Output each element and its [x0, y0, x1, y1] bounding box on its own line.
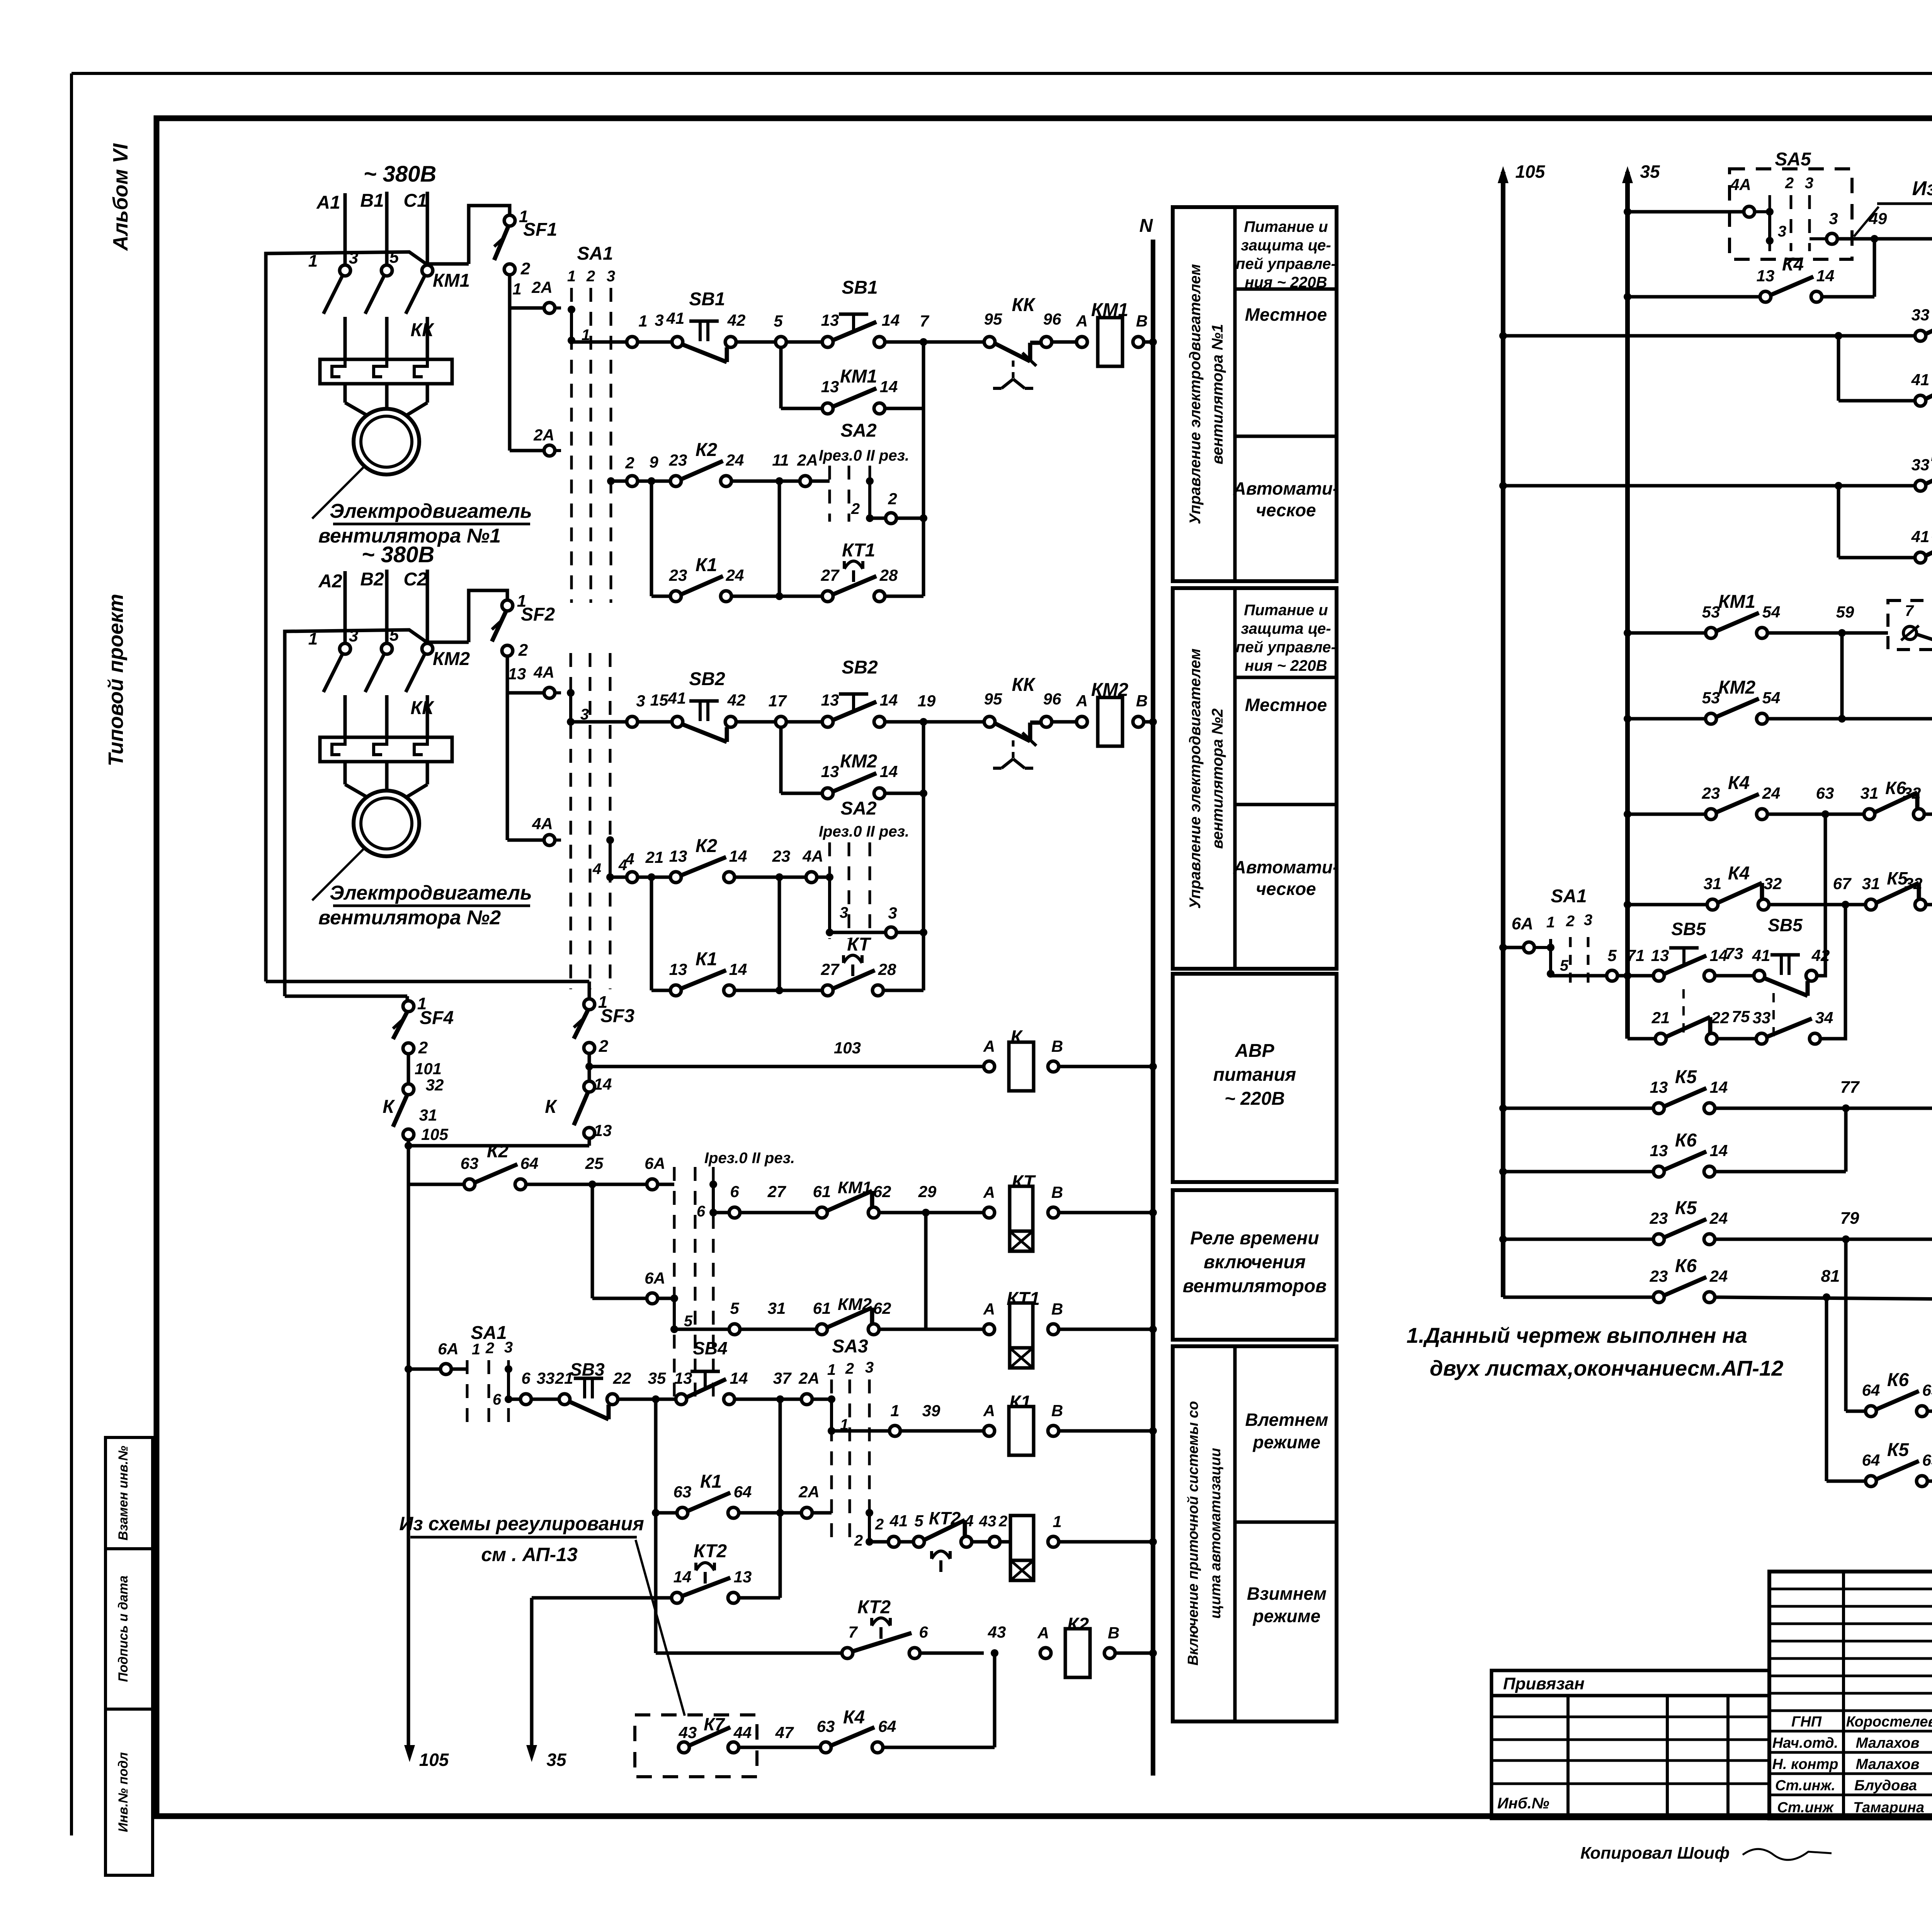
svg-text:1: 1: [472, 1341, 480, 1358]
svg-text:КМ2: КМ2: [1718, 677, 1755, 698]
svg-text:64: 64: [520, 1154, 539, 1172]
svg-text:1: 1: [827, 1361, 836, 1378]
terminal B fan2: [1133, 716, 1144, 727]
svg-text:В: В: [1108, 1624, 1119, 1642]
rung K6 coil wire: [1624, 901, 1631, 908]
svg-text:23: 23: [1650, 1267, 1668, 1285]
svg-text:61: 61: [813, 1182, 831, 1201]
terminal 3 right fan2: [886, 927, 896, 938]
svg-text:5: 5: [389, 248, 399, 267]
rung K1 KT1 fan1 wire: [650, 481, 653, 596]
table Управление вентилятором №2: [1173, 588, 1337, 969]
svg-text:5: 5: [774, 312, 783, 330]
rung K5 coil wire: [1624, 810, 1631, 818]
svg-text:Ст.инж: Ст.инж: [1777, 1800, 1834, 1816]
svg-text:Н. контр: Н. контр: [1772, 1756, 1838, 1772]
svg-text:14: 14: [1710, 1141, 1728, 1160]
terminal 2 right: [886, 513, 896, 524]
wire bus1 to SF3: [266, 980, 589, 983]
svg-text:2: 2: [1566, 913, 1575, 930]
svg-text:К6: К6: [1887, 1370, 1909, 1390]
svg-text:3: 3: [1829, 209, 1838, 228]
wire 14-19: [885, 720, 990, 724]
wire 14-7: [885, 340, 990, 344]
svg-text:Автомати-: Автомати-: [1233, 857, 1339, 877]
table Включение приточной системы: [1173, 1346, 1337, 1721]
svg-text:44: 44: [733, 1723, 752, 1742]
svg-text:Питание и: Питание и: [1244, 218, 1328, 235]
svg-text:1: 1: [308, 629, 318, 648]
svg-text:2: 2: [518, 641, 528, 660]
terminal B: [1133, 337, 1144, 347]
rung SB5 wire: [1551, 974, 1607, 978]
svg-text:3: 3: [1778, 223, 1786, 240]
svg-text:1: 1: [638, 312, 647, 330]
svg-text:13: 13: [674, 1369, 692, 1387]
terminal 3 SA5: [1827, 233, 1837, 244]
wire 96-A: [1052, 340, 1077, 344]
svg-text:3: 3: [888, 904, 897, 922]
SA1 fan2 position segment line1: [569, 693, 572, 722]
svg-text:13: 13: [821, 762, 839, 781]
svg-text:22: 22: [1711, 1009, 1730, 1027]
rung HL1 wire: [1499, 332, 1507, 340]
svg-text:2: 2: [418, 1038, 428, 1057]
wire 34 up to 67: [1820, 905, 1845, 1039]
svg-text:53: 53: [1702, 689, 1720, 707]
svg-text:В: В: [1051, 1183, 1063, 1201]
svg-text:пей управле-: пей управле-: [1236, 255, 1336, 272]
arrow 35 bottom: [526, 1745, 537, 1762]
svg-text:42: 42: [727, 691, 746, 709]
svg-text:щита автоматизации: щита автоматизации: [1207, 1448, 1224, 1619]
svg-text:3: 3: [349, 248, 358, 267]
SA1 right segment: [1549, 939, 1552, 976]
svg-text:41: 41: [1752, 946, 1770, 964]
svg-text:6: 6: [697, 1203, 706, 1220]
wire phase B2: [385, 570, 389, 642]
svg-text:В: В: [1051, 1300, 1063, 1318]
svg-text:ческое: ческое: [1256, 500, 1316, 520]
svg-text:79: 79: [1840, 1209, 1859, 1228]
wire 14-73-41: [1715, 974, 1754, 978]
svg-text:~ 380В: ~ 380В: [362, 542, 435, 567]
svg-text:Инб.№: Инб.№: [1497, 1795, 1549, 1812]
svg-text:А: А: [1037, 1624, 1049, 1642]
svg-text:пей управле-: пей управле-: [1236, 639, 1336, 656]
svg-text:А1: А1: [316, 192, 340, 213]
svg-text:К: К: [545, 1097, 558, 1117]
svg-text:6А: 6А: [438, 1340, 459, 1358]
svg-text:63: 63: [673, 1483, 692, 1501]
svg-text:105: 105: [1515, 162, 1546, 182]
svg-text:29: 29: [918, 1182, 937, 1201]
svg-text:Ст.инж.: Ст.инж.: [1775, 1778, 1835, 1794]
svg-text:95: 95: [984, 310, 1002, 328]
svg-text:К1: К1: [700, 1471, 722, 1492]
svg-text:Питание и: Питание и: [1244, 602, 1328, 619]
svg-text:Нач.отд.: Нач.отд.: [1772, 1735, 1838, 1751]
svg-text:96: 96: [1043, 310, 1061, 328]
svg-text:С1: С1: [403, 191, 427, 211]
svg-text:41: 41: [1911, 371, 1930, 389]
svg-text:КК: КК: [1012, 295, 1036, 315]
wire 59 vertical: [1840, 633, 1844, 719]
svg-text:28: 28: [878, 960, 896, 978]
wire 24-11-2А: [731, 480, 800, 483]
svg-text:С2: С2: [403, 569, 427, 590]
svg-text:3: 3: [840, 904, 848, 921]
svg-text:КМ1: КМ1: [433, 270, 470, 291]
svg-text:67: 67: [1833, 874, 1852, 893]
SA2 fan2 position segment: [828, 877, 831, 932]
svg-text:27: 27: [767, 1182, 786, 1201]
svg-text:14: 14: [730, 1369, 748, 1387]
terminal 4А SA5: [1744, 206, 1755, 217]
rung K4 contact 13-14 wire: [1624, 293, 1631, 301]
wire 14-37-2А: [735, 1398, 801, 1401]
wire 35 to SA5: [1624, 208, 1631, 216]
svg-text:К2: К2: [696, 440, 718, 460]
wire phase A1: [344, 193, 347, 266]
wire 37 vertical: [779, 1399, 782, 1598]
wire phase B1: [385, 192, 389, 264]
wire SF3 junction to K coil rung: [585, 1063, 593, 1070]
svg-text:23: 23: [1650, 1209, 1668, 1227]
svg-text:27: 27: [821, 960, 840, 978]
terminal B K2: [1104, 1648, 1115, 1658]
svg-text:62: 62: [873, 1299, 891, 1317]
svg-text:71: 71: [1627, 946, 1645, 964]
wire 42-17: [736, 720, 776, 724]
svg-text:двух листах,окончаниесм.АП-12: двух листах,окончаниесм.АП-12: [1430, 1356, 1783, 1380]
mechanical link dash SB5 stop: [1772, 993, 1775, 1043]
svg-text:64: 64: [1862, 1451, 1880, 1469]
svg-text:54: 54: [1762, 689, 1781, 707]
time relay coil KT2: [1010, 1516, 1034, 1560]
svg-text:2: 2: [1785, 175, 1794, 192]
wire 17-13: [786, 720, 822, 724]
svg-text:31: 31: [1861, 784, 1879, 802]
svg-text:ГНП: ГНП: [1791, 1714, 1822, 1730]
svg-text:2А: 2А: [797, 451, 818, 469]
SA3 segment 3: [868, 1513, 871, 1542]
svg-text:SB5: SB5: [1671, 919, 1706, 939]
left margin stamp box Взамен инв.№: [105, 1437, 153, 1549]
SA2 fan1 position segment: [868, 481, 871, 518]
svg-text:28: 28: [879, 566, 898, 584]
svg-text:103: 103: [834, 1039, 861, 1057]
svg-text:К4: К4: [843, 1707, 865, 1728]
box Привязан: [1492, 1670, 1769, 1696]
svg-text:КТ2: КТ2: [694, 1541, 727, 1561]
wire B-N fan2: [1144, 720, 1153, 724]
svg-text:31: 31: [768, 1299, 786, 1317]
svg-text:К2: К2: [487, 1141, 509, 1162]
svg-text:23: 23: [1702, 784, 1720, 802]
terminal 1 KT2: [1048, 1536, 1059, 1547]
svg-text:64: 64: [734, 1483, 752, 1501]
svg-text:63: 63: [1816, 784, 1834, 802]
terminal 6А right: [1524, 942, 1534, 953]
svg-text:6А: 6А: [645, 1269, 665, 1287]
svg-text:К5: К5: [1675, 1198, 1697, 1218]
svg-text:А: А: [983, 1183, 995, 1201]
left margin stamp box Подпись и дата: [105, 1549, 153, 1709]
svg-text:Инв.№ подл: Инв.№ подл: [116, 1752, 131, 1832]
svg-text:35: 35: [648, 1369, 666, 1387]
svg-text:19: 19: [918, 692, 936, 710]
rung HL3 wire: [1499, 482, 1507, 490]
svg-text:2А: 2А: [533, 426, 554, 444]
svg-text:SA2: SA2: [840, 420, 877, 441]
rung 63 K1 64 wire: [654, 1399, 658, 1653]
svg-text:64: 64: [878, 1717, 896, 1735]
svg-text:А: А: [983, 1300, 995, 1318]
svg-text:~ 380В: ~ 380В: [364, 162, 437, 187]
svg-text:35: 35: [1640, 162, 1660, 182]
outer sheet frame: [71, 72, 1932, 75]
svg-text:14: 14: [880, 691, 898, 709]
wire 42 up to 63: [1817, 814, 1825, 976]
svg-text:21: 21: [645, 848, 664, 866]
rung KT coil wire: [713, 1211, 729, 1214]
svg-text:14: 14: [1710, 1078, 1728, 1096]
SA2 lower segment II: [712, 1184, 715, 1213]
svg-text:33: 33: [1912, 456, 1930, 474]
svg-text:13: 13: [821, 691, 839, 709]
svg-text:SA1: SA1: [1551, 886, 1587, 907]
rung K1 coil wire: [832, 1429, 889, 1433]
rung HL2 wire: [1837, 336, 1840, 401]
wire from contact 5 to SF2: [427, 641, 469, 644]
rung KT1 coil wire: [674, 1328, 729, 1331]
svg-text:КК: КК: [410, 698, 435, 718]
svg-text:24: 24: [1709, 1209, 1728, 1227]
SA5 position segment: [1768, 212, 1771, 241]
svg-text:1: 1: [890, 1402, 899, 1420]
terminal 4А upper: [544, 687, 555, 698]
svg-text:Реле времени: Реле времени: [1190, 1228, 1319, 1249]
svg-text:Подпись и дата: Подпись и дата: [116, 1575, 131, 1682]
arrow 105 bottom: [404, 1745, 415, 1762]
svg-text:14: 14: [1816, 267, 1835, 285]
svg-text:7: 7: [920, 312, 929, 330]
motor M2 electric motor: [354, 791, 419, 856]
wire left bus fan2 top corner: [285, 630, 426, 996]
svg-text:Включение приточной системы со: Включение приточной системы со: [1185, 1401, 1201, 1666]
terminal B K coil: [1048, 1061, 1059, 1072]
svg-text:SA1: SA1: [471, 1323, 507, 1343]
wire 105 to 6А tap: [405, 1365, 412, 1373]
wire SF2 to 4А tap: [506, 656, 509, 840]
SA1 lower segment: [507, 1369, 510, 1399]
rail 35 right: [1625, 172, 1630, 1039]
svg-text:4А: 4А: [532, 815, 553, 833]
leader SA5: [1854, 207, 1879, 236]
svg-text:17: 17: [769, 692, 787, 710]
svg-text:защита це-: защита це-: [1241, 620, 1331, 637]
svg-text:А: А: [983, 1402, 995, 1420]
svg-text:4: 4: [964, 1512, 973, 1530]
svg-text:47: 47: [775, 1723, 794, 1742]
mechanical link dash SB5 start: [1682, 989, 1685, 1039]
rung K1 KT fan2 wire: [650, 877, 653, 990]
table cell Реле времени: [1173, 1190, 1337, 1340]
SA1 fan1 position segment: [570, 310, 573, 340]
svg-text:вентилятора №1: вентилятора №1: [1209, 324, 1226, 464]
terminal 2А upper: [544, 303, 555, 313]
rung K2 fan1 wire: [611, 480, 627, 483]
svg-text:32: 32: [1903, 784, 1921, 802]
svg-text:Управление электродвигателем: Управление электродвигателем: [1187, 648, 1204, 909]
svg-text:3: 3: [1805, 175, 1813, 192]
motor M1 electric motor: [354, 409, 419, 475]
svg-text:95: 95: [984, 690, 1002, 708]
svg-text:1: 1: [308, 252, 318, 270]
svg-text:105: 105: [421, 1125, 449, 1143]
svg-text:4А: 4А: [1730, 175, 1751, 194]
svg-text:7: 7: [848, 1623, 858, 1641]
rung K4 coil wire: [1624, 715, 1631, 723]
svg-text:Малахов: Малахов: [1856, 1756, 1920, 1772]
terminal B KT: [1048, 1207, 1059, 1218]
svg-text:96: 96: [1043, 690, 1061, 708]
rung K2 fan2 wire: [610, 876, 627, 879]
svg-text:SA1: SA1: [577, 243, 613, 264]
svg-text:2: 2: [520, 259, 531, 278]
svg-text:1: 1: [567, 268, 576, 285]
svg-text:КМ2: КМ2: [433, 649, 470, 669]
svg-text:Взамен инв.№: Взамен инв.№: [116, 1446, 131, 1540]
svg-text:32: 32: [1764, 874, 1782, 893]
svg-text:В: В: [1051, 1037, 1063, 1055]
svg-text:SB2: SB2: [689, 669, 725, 689]
svg-text:SA3: SA3: [832, 1336, 868, 1357]
svg-text:Копировал Шоиф: Копировал Шоиф: [1580, 1844, 1730, 1863]
svg-text:КТ1: КТ1: [842, 540, 875, 561]
svg-text:АВР: АВР: [1235, 1041, 1274, 1061]
rung K6 13-14 wire: [1499, 1168, 1507, 1175]
svg-text:Электродвигатель: Электродвигатель: [330, 500, 532, 522]
svg-text:1.Данный чертеж выполнен на: 1.Данный чертеж выполнен на: [1406, 1323, 1747, 1347]
svg-text:23: 23: [772, 847, 791, 865]
wire 49 vertical: [1873, 239, 1876, 297]
svg-text:31: 31: [1704, 874, 1722, 893]
svg-text:А: А: [1076, 692, 1088, 710]
svg-text:63: 63: [1922, 1381, 1932, 1399]
svg-text:43: 43: [979, 1513, 997, 1530]
svg-text:59: 59: [1836, 603, 1854, 621]
svg-text:вентилятора №2: вентилятора №2: [1209, 708, 1226, 849]
svg-text:режиме: режиме: [1252, 1606, 1321, 1626]
svg-text:Взимнем: Взимнем: [1247, 1584, 1327, 1604]
svg-text:7: 7: [1905, 602, 1914, 619]
terminal B K1: [1048, 1425, 1059, 1436]
svg-text:33: 33: [537, 1369, 555, 1387]
svg-text:14: 14: [594, 1075, 612, 1093]
svg-text:Iрез.0 II рез.: Iрез.0 II рез.: [704, 1150, 795, 1167]
svg-text:53: 53: [1702, 603, 1720, 621]
svg-text:КМ2: КМ2: [840, 751, 877, 772]
svg-text:КМ1: КМ1: [1718, 592, 1755, 612]
thermal relay KK heater fan2: [320, 737, 452, 762]
svg-text:14: 14: [882, 311, 900, 329]
rung 64 K6 63 wire: [1844, 1239, 1848, 1411]
svg-text:ния ~ 220В: ния ~ 220В: [1245, 657, 1327, 674]
svg-text:В: В: [1136, 312, 1148, 330]
svg-text:101: 101: [415, 1060, 442, 1078]
grid below Привязан: [1492, 1696, 1769, 1818]
rung HL4 wire: [1837, 486, 1840, 558]
wire 2017 vertical fan1: [778, 481, 781, 596]
svg-text:31: 31: [419, 1106, 437, 1124]
svg-text:SB3: SB3: [570, 1359, 605, 1379]
svg-text:81: 81: [1821, 1267, 1840, 1286]
rung 63 K2 64 wire: [408, 1183, 464, 1186]
svg-text:4: 4: [592, 861, 601, 878]
svg-text:Из схемы регулирования: Из схемы регулирования: [1912, 177, 1932, 200]
rung K coil АВР wire: [589, 1065, 984, 1068]
svg-text:43: 43: [679, 1723, 697, 1742]
svg-text:В1: В1: [360, 191, 384, 211]
svg-text:64: 64: [1862, 1381, 1880, 1399]
svg-text:21: 21: [1651, 1009, 1670, 1027]
svg-text:62: 62: [873, 1182, 891, 1201]
svg-text:2: 2: [854, 1532, 863, 1549]
svg-text:33: 33: [1912, 306, 1930, 324]
KM2 self-hold branch wire: [779, 727, 783, 793]
svg-text:3: 3: [607, 268, 615, 285]
svg-text:15: 15: [650, 691, 668, 709]
svg-text:9: 9: [649, 453, 658, 471]
title block sign-off grid: [1769, 1572, 1932, 1818]
svg-text:Тамарина: Тамарина: [1853, 1800, 1924, 1816]
svg-text:49: 49: [1869, 209, 1887, 228]
svg-text:Привязан: Привязан: [1503, 1674, 1585, 1693]
svg-text:63: 63: [461, 1154, 479, 1172]
svg-text:13: 13: [1650, 1141, 1668, 1160]
svg-text:вентилятора №2: вентилятора №2: [318, 907, 501, 929]
svg-text:5: 5: [1607, 946, 1617, 964]
wire 2017 vertical fan2: [778, 877, 781, 990]
svg-text:24: 24: [726, 451, 744, 469]
SA1 fan2 position segment line3: [609, 840, 612, 877]
svg-text:77: 77: [1840, 1078, 1860, 1097]
wire 42-5: [736, 340, 776, 344]
svg-text:Местное: Местное: [1245, 695, 1327, 715]
svg-text:105: 105: [419, 1750, 449, 1770]
svg-text:61: 61: [813, 1299, 831, 1317]
svg-text:SF3: SF3: [600, 1006, 634, 1026]
svg-text:КК: КК: [1012, 675, 1036, 695]
svg-text:SB1: SB1: [689, 289, 725, 310]
svg-text:41: 41: [1911, 527, 1930, 546]
svg-text:Типовой проект: Типовой проект: [104, 594, 128, 767]
leader line to motor2 label: [312, 849, 363, 900]
svg-text:К6: К6: [1675, 1130, 1697, 1151]
svg-text:22: 22: [613, 1369, 631, 1387]
svg-text:3: 3: [349, 626, 358, 645]
svg-text:В: В: [1051, 1402, 1063, 1420]
svg-text:24: 24: [1762, 784, 1781, 802]
svg-text:2А: 2А: [798, 1483, 820, 1501]
svg-text:25: 25: [585, 1154, 604, 1172]
svg-text:5: 5: [730, 1299, 739, 1317]
dashed box У1 upper: [1888, 600, 1932, 650]
svg-text:6: 6: [730, 1182, 739, 1201]
wire phase C2: [426, 570, 429, 642]
